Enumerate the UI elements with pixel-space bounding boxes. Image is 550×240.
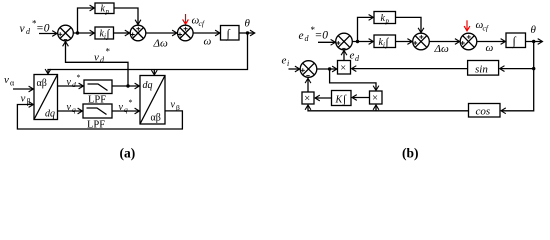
summing junction SJ4 (300, 61, 317, 78)
svg-text:*: * (129, 98, 133, 107)
svg-text:dq: dq (143, 80, 153, 91)
svg-text:*: * (77, 73, 81, 82)
svg-text:×: × (304, 94, 310, 105)
wire integrator to theta output (a) (239, 32, 255, 34)
node after SJ1b (356, 40, 359, 43)
wire LPF2 to dq/ab (112, 110, 139, 112)
branch arrow theta into dq/ab block (a) (153, 70, 155, 75)
svg-text:d: d (72, 80, 76, 89)
wire vq to LPF2 (58, 110, 83, 112)
svg-text:θ: θ (245, 18, 251, 30)
multiplier x0 (b) (338, 61, 351, 75)
svg-text:Δω: Δω (434, 43, 449, 55)
svg-text:∫: ∫ (106, 28, 111, 40)
wire kp to SJ2a (114, 8, 138, 24)
svg-text:(a): (a) (120, 146, 136, 161)
svg-text:(b): (b) (402, 146, 419, 161)
wire ed* input (b) (318, 41, 335, 43)
svg-text:i: i (287, 59, 289, 68)
multiplier x1 (b) (302, 92, 314, 105)
wire SJ2b to SJ3b (429, 41, 459, 43)
node vd-bar (a) (126, 84, 129, 87)
svg-text:β: β (176, 103, 180, 112)
svg-text:v: v (21, 93, 26, 105)
svg-text:p: p (105, 8, 110, 16)
svg-text:v: v (67, 102, 72, 113)
wire SJ2a to SJ3a (146, 32, 177, 34)
wire branch up to kp (b) (358, 17, 374, 41)
svg-text:×: × (340, 63, 346, 74)
svg-text:dq: dq (45, 109, 55, 120)
svg-text:e: e (350, 50, 355, 62)
wire junction to sin box (b) (500, 68, 534, 70)
transform block ab/dq (a) (34, 75, 58, 120)
wire ei input (b) (289, 68, 300, 70)
svg-text:=0: =0 (36, 23, 50, 35)
svg-text:v: v (171, 100, 176, 111)
node error e (b) (328, 67, 331, 70)
wire x0 to SJ1b (b) (343, 51, 345, 61)
wire x1 to SJ4 (b) (307, 79, 309, 93)
svg-text:∫: ∫ (512, 34, 517, 48)
wire vd' to LPF1 (58, 85, 84, 87)
wire x2 to K integrator (b) (352, 97, 369, 99)
svg-text:×: × (372, 93, 378, 104)
wire kp to SJ2b (396, 17, 422, 32)
label wcf (b) (476, 19, 489, 33)
gain block kp (b) (374, 12, 396, 26)
svg-text:d: d (100, 56, 105, 65)
wire SJ4 to multiplier x0 (b) (317, 68, 337, 70)
gain block kp (a) (95, 3, 114, 16)
svg-text:v: v (20, 23, 26, 35)
summing junction SJ1a (58, 25, 74, 41)
LPF2 block (83, 104, 112, 131)
label wcf (a) (192, 15, 205, 29)
svg-text:v: v (4, 74, 9, 86)
svg-text:q: q (72, 105, 76, 114)
svg-text:e: e (299, 30, 304, 42)
integrator gain block ki (a) (95, 27, 114, 41)
svg-text:cf: cf (199, 19, 205, 28)
label ed*=0 input (b) (299, 25, 329, 43)
input label va (4, 74, 15, 88)
svg-text:Δω: Δω (153, 38, 168, 50)
integrator block (a) (221, 26, 240, 41)
feedback wire theta to transform blocks (a) (48, 33, 248, 74)
wire cos rail to multipliers (b) (308, 105, 469, 111)
svg-text:e: e (282, 55, 287, 67)
wire branch up to kp (a) (78, 8, 95, 33)
sin block (b) (468, 61, 499, 76)
wire integrator to theta output (b) (526, 41, 543, 43)
wire SJ3b to integrator (b) (477, 41, 505, 43)
transform block dq/ab (a) (140, 76, 165, 125)
svg-text:p: p (385, 17, 390, 25)
red disturbance arrow wcf (b) (466, 20, 468, 30)
svg-text:αβ: αβ (151, 113, 161, 124)
multiplier x2 (b) (370, 91, 383, 104)
integrator block (b) (506, 33, 526, 48)
LPF1 block (84, 80, 112, 106)
feedback wire theta down to cos (b) (501, 42, 534, 111)
input label vb (21, 93, 31, 107)
red disturbance arrow wcf (a) (185, 14, 187, 24)
summing junction SJ2b (413, 33, 430, 50)
wire va input (13, 88, 33, 90)
svg-text:v: v (119, 102, 124, 113)
summing junction SJ3b (460, 33, 477, 50)
svg-text:ω: ω (486, 42, 494, 54)
label vd' (a) (67, 73, 81, 89)
node sin junction (b) (532, 67, 535, 70)
input label ei (b) (282, 55, 290, 69)
label vd*=0 input (a) (20, 19, 50, 37)
label vd-bar feedback (a) (94, 47, 111, 65)
summing junction SJ1b (336, 33, 353, 50)
summing junction SJ3a (178, 25, 194, 41)
wire K to multiplier x1 (b) (315, 97, 331, 99)
svg-text:=0: =0 (315, 30, 329, 42)
svg-text:∫: ∫ (385, 37, 390, 49)
wire vd* input (a) (39, 33, 57, 35)
feedback wire vd-bar to SJ1a (66, 42, 129, 86)
svg-text:θ: θ (531, 24, 537, 36)
wire ki to SJ2a (114, 32, 130, 34)
integrator gain block ki (b) (374, 35, 396, 49)
label ed (b) (350, 50, 361, 64)
svg-text:ω: ω (204, 36, 212, 48)
svg-text:d: d (355, 54, 360, 63)
amplitude integrator block K (b) (332, 91, 352, 106)
svg-text:d: d (305, 34, 310, 43)
summing junction SJ2a (130, 25, 146, 41)
node theta (a) (246, 31, 249, 34)
svg-text:α: α (10, 79, 15, 88)
svg-text:cf: cf (483, 24, 489, 33)
wire error node down to x2 (b) (330, 69, 376, 90)
wire vb-bar wrap-around feedback (a) (17, 105, 182, 130)
wire LPF1 to dq/ab with node (112, 85, 139, 87)
wire node to ki (b) (352, 41, 373, 43)
svg-text:q: q (124, 105, 128, 114)
svg-text:∫: ∫ (226, 27, 231, 41)
label delta-omega (a) (153, 38, 168, 50)
label vq-bar (a) (119, 98, 133, 114)
svg-text:d: d (26, 27, 31, 36)
svg-text:v: v (67, 77, 72, 88)
wire ki to SJ2b (396, 41, 413, 43)
node after SJ1a (76, 31, 79, 34)
branch arrow cos rail into x2 (b) (375, 105, 377, 111)
svg-text:∫: ∫ (342, 94, 347, 106)
svg-text:*: * (106, 47, 111, 57)
svg-text:v: v (94, 52, 99, 64)
label vb-bar (a) (171, 100, 181, 113)
wire node to ki (a) (73, 32, 94, 34)
svg-text:sin: sin (475, 64, 488, 76)
label vq (a) (67, 102, 77, 114)
svg-text:αβ: αβ (37, 78, 47, 89)
svg-text:cos: cos (476, 106, 491, 118)
node theta (b) (532, 40, 535, 43)
cos block (b) (469, 104, 501, 118)
wire sin to multiplier x0 (b) (352, 68, 468, 70)
wire SJ3a to integrator (193, 32, 220, 34)
